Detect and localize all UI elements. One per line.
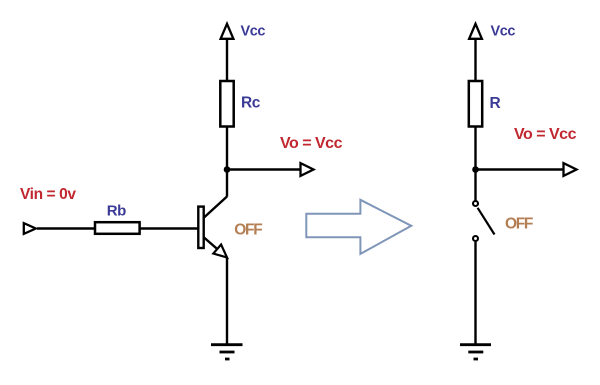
wire switch to ground (474, 242, 476, 345)
svg-text:Rb: Rb (107, 203, 126, 220)
node collector junction (224, 166, 231, 173)
svg-text:Vcc: Vcc (491, 24, 516, 40)
svg-text:OFF: OFF (234, 221, 262, 238)
wire Vcc arrow to R (474, 40, 476, 82)
node output junction (right) (472, 166, 479, 173)
block arrow (transform) (306, 200, 411, 254)
resistor Rc (220, 81, 233, 127)
svg-text:R: R (490, 95, 501, 112)
svg-text:OFF: OFF (505, 216, 533, 233)
ground (right) (460, 345, 491, 359)
Vcc power arrow (left) (221, 24, 234, 39)
wire output (left) (227, 168, 301, 170)
output arrow (left) (301, 163, 314, 176)
wire Rc to collector (226, 127, 228, 197)
svg-text:Vcc: Vcc (241, 24, 266, 40)
ground (left) (211, 345, 243, 359)
switch SW open (473, 201, 495, 241)
Vcc power arrow (right) (469, 24, 482, 39)
resistor R (469, 81, 482, 127)
svg-text:Vin = 0v: Vin = 0v (20, 186, 76, 203)
output arrow (right) (564, 163, 577, 176)
svg-text:Vo = Vcc: Vo = Vcc (280, 135, 343, 152)
svg-text:Rc: Rc (241, 95, 261, 112)
resistor Rb (95, 222, 140, 234)
wire Vin arrow to Rb (37, 227, 95, 229)
wire Rb to base (140, 227, 198, 229)
wire R to junction (474, 127, 476, 201)
transistor Q1 (198, 197, 227, 258)
wire emitter to ground (226, 258, 228, 345)
wire Vcc arrow to Rc (226, 40, 228, 82)
svg-text:Vo = Vcc: Vo = Vcc (514, 126, 577, 143)
wire output (right) (476, 168, 564, 170)
input arrow Vin (24, 223, 36, 234)
